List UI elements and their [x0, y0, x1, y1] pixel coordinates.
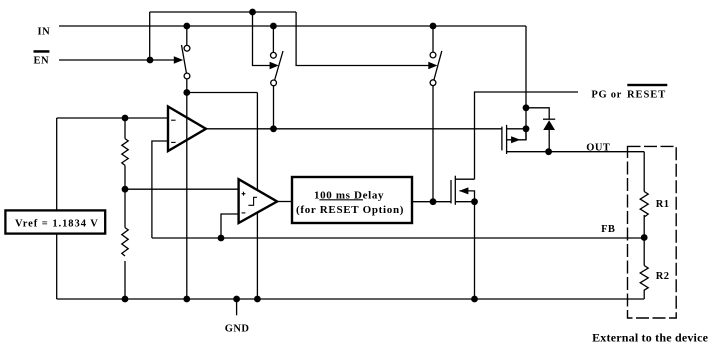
- svg-text:FB: FB: [601, 224, 615, 235]
- svg-text:R1: R1: [656, 199, 670, 210]
- svg-text:Vref = 1.1834 V: Vref = 1.1834 V: [15, 219, 99, 230]
- svg-text:IN: IN: [38, 27, 51, 38]
- svg-text:(for RESET Option): (for RESET Option): [296, 204, 404, 216]
- svg-text:RESET: RESET: [627, 90, 666, 101]
- svg-text:GND: GND: [225, 324, 250, 335]
- svg-text:OUT: OUT: [586, 142, 610, 153]
- svg-text:EN: EN: [34, 55, 50, 66]
- svg-text:R2: R2: [656, 271, 670, 282]
- svg-text:PG or: PG or: [591, 90, 622, 101]
- svg-text:External to the device: External to the device: [592, 331, 709, 345]
